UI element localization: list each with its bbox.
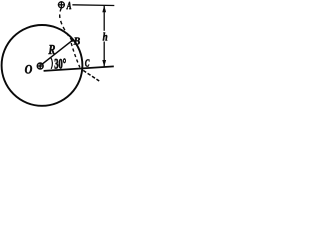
circular track (circle centered at O) xyxy=(2,25,83,106)
node A: circled plus symbol xyxy=(58,1,65,8)
svg-text:h: h xyxy=(103,32,108,44)
arrowhead down xyxy=(102,60,106,67)
label 30 degrees xyxy=(54,55,66,72)
svg-text:O: O xyxy=(25,61,33,76)
dashed trajectory B down to line xyxy=(71,43,80,67)
dashed trajectory below line past C xyxy=(83,70,99,81)
label A xyxy=(66,0,71,11)
label C xyxy=(85,57,90,69)
label B xyxy=(73,36,81,48)
wire: radius line O to B xyxy=(41,40,72,65)
node B dot xyxy=(71,39,74,42)
svg-text:B: B xyxy=(73,36,81,48)
angle arc at O xyxy=(51,58,53,69)
dimension line h (vertical, two segments with gap for label) xyxy=(103,5,105,31)
label h xyxy=(103,32,108,44)
arrowhead up xyxy=(102,5,106,12)
label O xyxy=(25,61,33,76)
svg-text:30°: 30° xyxy=(54,55,66,72)
svg-text:C: C xyxy=(85,57,90,69)
label R xyxy=(48,42,56,58)
wire: horizontal ground line through O and C xyxy=(44,66,114,71)
node O: circled plus symbol xyxy=(37,63,43,69)
wire: top horizontal line from A xyxy=(72,4,114,7)
dashed trajectory A to B xyxy=(60,8,72,40)
svg-text:A: A xyxy=(66,0,71,11)
svg-text:R: R xyxy=(48,42,56,58)
